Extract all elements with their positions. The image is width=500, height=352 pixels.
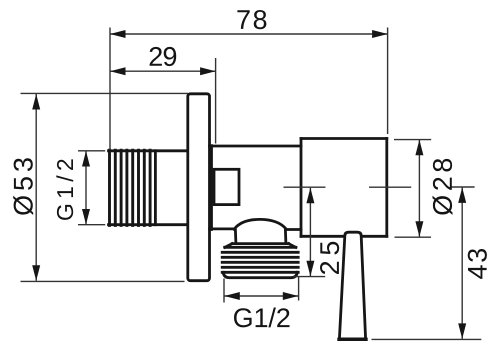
- ext line G1/2 bottom left: [223, 279, 225, 303]
- arrow 29 left: [110, 67, 126, 75]
- arrow 78 right: [372, 30, 388, 38]
- valve body top line: [210, 145, 302, 148]
- arrow 29 right: [200, 67, 216, 75]
- handle lever: [339, 232, 365, 339]
- label O53: [13, 158, 33, 215]
- label G1/2 bottom: [234, 308, 290, 328]
- label 25: [320, 242, 339, 274]
- label 78: [237, 10, 266, 29]
- handle lever bottom edge bold: [339, 338, 366, 341]
- cartridge housing right edge: [385, 139, 388, 237]
- extension line right x387.6: [387, 28, 389, 135]
- centerline left segment: [284, 186, 326, 188]
- outlet neck flare: [225, 244, 296, 248]
- ext line G1/2 bottom right: [298, 277, 300, 301]
- dim line O28: [418, 140, 420, 237]
- extension line left x110: [109, 28, 111, 150]
- arrow O28 down: [415, 221, 423, 237]
- tick 43 top: [451, 186, 474, 188]
- valve body bottom right segment: [286, 228, 301, 231]
- valve body bottom left segment: [210, 227, 235, 230]
- label O28: [433, 159, 453, 215]
- dim line 29: [110, 70, 216, 72]
- arrow 43 up: [458, 187, 466, 203]
- dim line 78: [110, 33, 388, 35]
- arrowheads: [32, 30, 466, 339]
- arrow 78 left: [110, 30, 126, 38]
- arrow 43 down: [458, 323, 466, 339]
- ext line bottom right: [372, 338, 482, 340]
- inlet thread end separator: [154, 151, 157, 225]
- cartridge housing bottom line left of lever: [301, 235, 345, 238]
- arrow G12left down: [82, 209, 90, 225]
- ext line O53 top: [21, 92, 189, 94]
- cartridge housing top line: [301, 137, 387, 140]
- label G1/2 left: [56, 159, 73, 220]
- dim line 25: [309, 188, 311, 276]
- inlet pipe top line: [109, 149, 188, 152]
- arrow G12bottom left: [224, 292, 240, 300]
- inlet thread G1/2 ridges: [110, 150, 151, 225]
- dim line O53: [35, 94, 37, 281]
- ext line O28 top: [394, 139, 431, 141]
- bonnet block: [214, 169, 239, 204]
- cartridge housing bottom line right of lever: [361, 235, 386, 238]
- outlet thread stack: [222, 247, 298, 272]
- ext line O28 bottom: [395, 236, 432, 238]
- label 29: [150, 47, 177, 66]
- centerline right segment: [369, 186, 411, 188]
- arrow O53 up: [32, 94, 40, 110]
- arrow O53 down: [32, 265, 40, 281]
- tick G1/2 left bottom: [78, 224, 105, 226]
- inlet pipe bottom line: [109, 223, 188, 226]
- dim line G1/2 bottom: [224, 295, 299, 297]
- arrow G12bottom right: [283, 292, 299, 300]
- tick 25 bottom: [294, 276, 326, 278]
- tick G1/2 left top: [78, 150, 105, 152]
- arrow 25 down: [306, 261, 314, 277]
- dim line 43: [461, 187, 463, 339]
- valve body left edge: [209, 146, 212, 229]
- ext line O53 bottom: [21, 280, 185, 282]
- arrow O28 up: [415, 140, 423, 156]
- cartridge housing left edge: [300, 139, 303, 237]
- extension line x215.6: [215, 58, 217, 144]
- arrow 25 up: [306, 188, 314, 204]
- arrow G12left up: [82, 151, 90, 167]
- outlet dome: [232, 219, 288, 243]
- outlet bottom face: [223, 272, 297, 277]
- wall flange: [188, 94, 210, 281]
- dim line G1/2 left: [85, 151, 87, 224]
- label 43: [468, 249, 487, 279]
